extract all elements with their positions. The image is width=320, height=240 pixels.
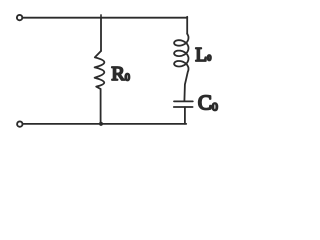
svg-text:R0: R0 bbox=[111, 63, 130, 85]
capacitor C0 (top plate) bbox=[174, 100, 193, 102]
inductor L0 (coil) bbox=[174, 34, 188, 101]
wire (top-right corner down to coil) bbox=[186, 17, 188, 34]
capacitor C0 (bottom plate) bbox=[174, 106, 193, 108]
wire (R0 branch, from top wire to resistor) bbox=[100, 18, 102, 51]
wire (top horizontal) bbox=[23, 17, 187, 19]
node (top junction tick) bbox=[100, 15, 102, 18]
wire (bottom horizontal) bbox=[23, 123, 186, 125]
svg-text:L0: L0 bbox=[195, 45, 211, 66]
svg-text:C0: C0 bbox=[198, 91, 218, 115]
terminal (top-left, open circle) bbox=[17, 15, 22, 20]
resistor R0 bbox=[95, 51, 105, 89]
wire (resistor to bottom wire) bbox=[100, 89, 102, 125]
node (bottom junction, filled dot) bbox=[99, 122, 103, 126]
terminal (bottom-left, open circle) bbox=[17, 121, 22, 126]
wire (capacitor to bottom-right corner) bbox=[184, 107, 186, 124]
